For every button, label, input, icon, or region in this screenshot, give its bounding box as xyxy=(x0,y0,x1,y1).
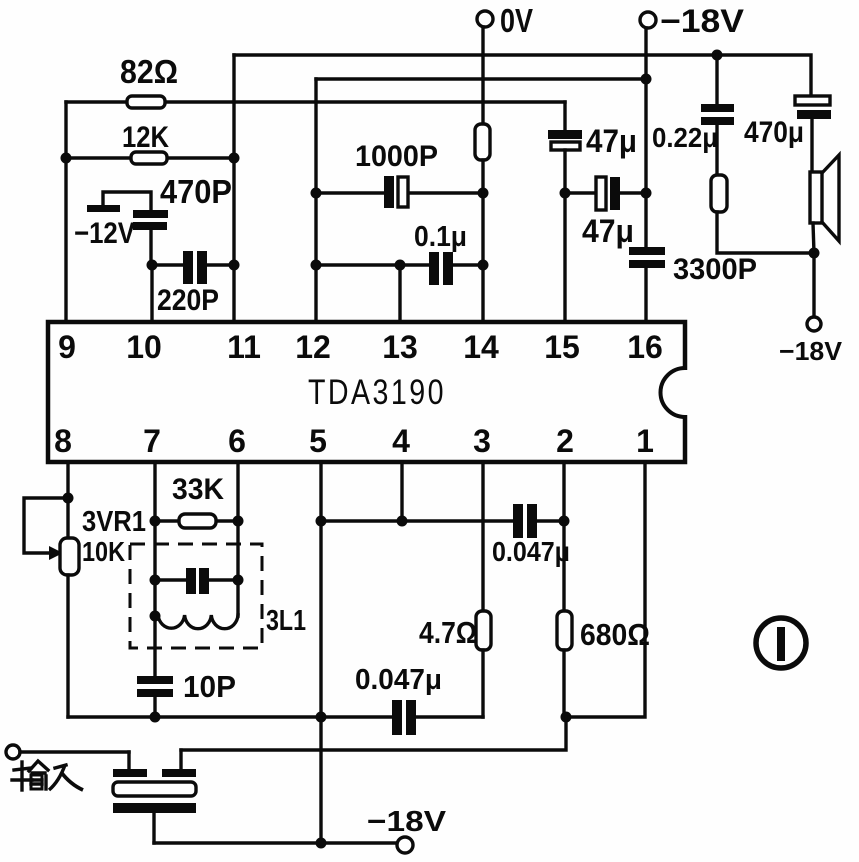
wire pin2 lower xyxy=(562,650,565,717)
node junction 220P/pin11 xyxy=(229,260,240,271)
svg-text:47μ: 47μ xyxy=(586,123,637,159)
node junction pin15/47u xyxy=(560,188,571,199)
svg-text:3VR1: 3VR1 xyxy=(82,506,146,538)
svg-text:15: 15 xyxy=(544,329,580,365)
wire pin1 vertical and across xyxy=(566,462,645,717)
potentiometer 3VR1 10K body xyxy=(60,506,146,575)
terminal -18V bottom right xyxy=(779,317,843,366)
node junction pin7/33K xyxy=(150,516,161,527)
capacitor 470u (polarized) xyxy=(744,96,831,172)
wire 12K row xyxy=(66,156,234,159)
resistor 4.7ohm xyxy=(419,611,491,650)
svg-text:−12V: −12V xyxy=(74,217,135,250)
capacitor 47u upper (polarized) xyxy=(548,102,637,193)
wire pin4 vertical xyxy=(400,462,403,521)
svg-text:−18V: −18V xyxy=(660,3,745,39)
svg-text:0V: 0V xyxy=(500,2,533,39)
resistor on 0V line xyxy=(475,124,490,160)
capacitor 0.22u xyxy=(652,55,734,153)
svg-text:470μ: 470μ xyxy=(744,116,804,149)
wire 0V line upper xyxy=(481,27,484,124)
capacitor 0.047u middle with lead xyxy=(492,504,570,567)
wire pin12 vertical xyxy=(314,79,317,322)
capacitor 0.1u with leads xyxy=(316,221,483,285)
svg-text:3: 3 xyxy=(473,423,491,459)
node junction pin8/wiper xyxy=(63,493,74,504)
node junction net2/-18V xyxy=(641,74,652,85)
wire pin3 to bottom rail xyxy=(481,650,484,717)
node junction 47u/-18V line xyxy=(641,188,652,199)
node junction 470P/220P/pin10 xyxy=(147,260,158,271)
terminal -18V bottom middle xyxy=(367,806,447,853)
svg-text:7: 7 xyxy=(143,423,161,459)
capacitor 1000P with leads xyxy=(316,140,483,208)
node junction net1/0.22u branch xyxy=(712,50,723,61)
resistor 12K xyxy=(122,121,169,164)
svg-text:0.047μ: 0.047μ xyxy=(355,664,442,696)
node junction 10P/bottom rail xyxy=(150,712,161,723)
wire pin13 vertical xyxy=(398,265,401,322)
svg-text:16: 16 xyxy=(627,329,663,365)
svg-text:82Ω: 82Ω xyxy=(120,53,178,90)
node junction pin13/0.1u xyxy=(395,260,406,271)
node junction pin2/pin1/input return xyxy=(561,712,572,723)
node junction 1000P/0V line xyxy=(478,188,489,199)
IC U1 TDA3190 body xyxy=(48,322,691,462)
node junction speaker/-18V bottom xyxy=(809,248,820,259)
svg-text:1000P: 1000P xyxy=(355,140,438,173)
figure number circled 1 xyxy=(756,618,806,668)
node junction pin4/row521 xyxy=(397,516,408,527)
node junction pin9/12K xyxy=(61,153,72,164)
svg-text:0.1μ: 0.1μ xyxy=(414,221,467,253)
power -12V tap bar xyxy=(74,192,151,250)
node junction 0.1u/pin14 xyxy=(478,260,489,271)
node junction pin7/coil xyxy=(150,611,161,622)
svg-text:TDA3190: TDA3190 xyxy=(308,373,446,412)
node junction pin5/bottom rail xyxy=(316,712,327,723)
resistor 82ohm xyxy=(120,53,178,108)
node junction pin6/33K xyxy=(233,516,244,527)
svg-text:13: 13 xyxy=(382,329,418,365)
svg-text:14: 14 xyxy=(463,329,499,365)
wire pin5 vertical xyxy=(319,462,322,843)
capacitor 220P with leads xyxy=(152,251,234,317)
wire pin9 vertical xyxy=(64,102,67,322)
svg-text:−18V: −18V xyxy=(779,336,843,366)
node junction pin12/1000P xyxy=(311,188,322,199)
wire input return xyxy=(181,717,566,750)
svg-text:5: 5 xyxy=(309,423,327,459)
wire filter ground to -18V terminal xyxy=(154,841,397,844)
svg-text:220P: 220P xyxy=(157,284,219,317)
svg-text:8: 8 xyxy=(54,423,72,459)
wire pin8 vertical upper xyxy=(66,462,69,538)
wire pin3 vertical xyxy=(481,462,484,611)
svg-text:47μ: 47μ xyxy=(582,213,634,249)
wire to -18V bottom right terminal xyxy=(812,253,815,317)
wire pin8 vertical lower xyxy=(66,575,69,717)
svg-text:12: 12 xyxy=(295,329,331,365)
svg-text:1: 1 xyxy=(636,423,654,459)
wire 82ohm rail from pin9 to 47u top xyxy=(66,100,565,103)
svg-text:10K: 10K xyxy=(82,536,125,567)
resistor 33K with leads xyxy=(155,473,238,528)
svg-text:10P: 10P xyxy=(183,669,236,704)
label input (shu) xyxy=(12,761,48,790)
node junction pin5/ground wire xyxy=(316,838,327,849)
wire 0V line lower to pin14 xyxy=(481,160,484,322)
svg-text:4: 4 xyxy=(392,423,410,459)
resistor 680ohm xyxy=(557,611,650,652)
svg-text:470P: 470P xyxy=(160,173,232,210)
svg-text:2: 2 xyxy=(556,423,574,459)
wire pin7 vertical xyxy=(153,462,156,676)
capacitor in trap L1 with leads xyxy=(155,568,238,594)
wire pin11 vertical xyxy=(232,55,235,322)
terminal 0V xyxy=(477,2,533,39)
inductor 3L1 coil xyxy=(158,615,238,629)
wire net1 top rail from pin11 to speaker branch xyxy=(234,55,811,96)
svg-text:6: 6 xyxy=(228,423,246,459)
capacitor 47u lower (horizontal) with leads xyxy=(565,177,646,249)
svg-text:0.22μ: 0.22μ xyxy=(652,122,718,153)
wire -18V line vertical xyxy=(644,28,647,247)
trap 3L1 dashed box xyxy=(130,544,306,648)
label input (ru) xyxy=(49,765,83,790)
node junction pin5/row521 xyxy=(316,516,327,527)
node junction pin7/trap cap xyxy=(150,575,161,586)
capacitor 470P xyxy=(133,173,232,265)
wire pin6 vertical xyxy=(236,462,239,616)
svg-text:4.7Ω: 4.7Ω xyxy=(419,615,477,650)
node junction pin12/0.1u xyxy=(311,260,322,271)
speaker xyxy=(810,155,839,253)
terminal input xyxy=(6,745,129,759)
svg-text:10: 10 xyxy=(126,329,162,365)
capacitor 10P xyxy=(137,669,236,717)
svg-text:680Ω: 680Ω xyxy=(580,617,650,652)
capacitor 3300P xyxy=(629,247,757,322)
svg-text:0.047μ: 0.047μ xyxy=(492,536,570,567)
potentiometer 3VR1 arrow xyxy=(49,546,63,560)
svg-text:−18V: −18V xyxy=(367,806,447,838)
svg-text:9: 9 xyxy=(58,329,76,365)
capacitor 0.047u lower with lead xyxy=(355,664,483,735)
wire pin2 vertical xyxy=(562,462,565,611)
svg-text:3300P: 3300P xyxy=(673,253,757,286)
node junction pin2/row521 xyxy=(559,516,570,527)
wire net2 from pin12 to -18V line xyxy=(316,77,646,80)
ceramic filter input transducer xyxy=(113,750,196,843)
wire bottom rail left xyxy=(68,715,392,718)
svg-text:33K: 33K xyxy=(172,473,224,506)
node junction pin11/12K xyxy=(229,153,240,164)
node junction pin6/trap cap xyxy=(233,575,244,586)
svg-text:11: 11 xyxy=(227,329,261,365)
wire pin15 vertical xyxy=(563,193,566,322)
svg-text:3L1: 3L1 xyxy=(266,605,306,637)
svg-text:12K: 12K xyxy=(122,121,169,154)
wire potentiometer wiper loop xyxy=(24,498,68,553)
wire feedback row y521 xyxy=(321,519,513,522)
wire pin10 vertical xyxy=(150,265,153,322)
resistor on 0.22u branch xyxy=(711,125,814,253)
terminal -18V top xyxy=(640,3,745,39)
